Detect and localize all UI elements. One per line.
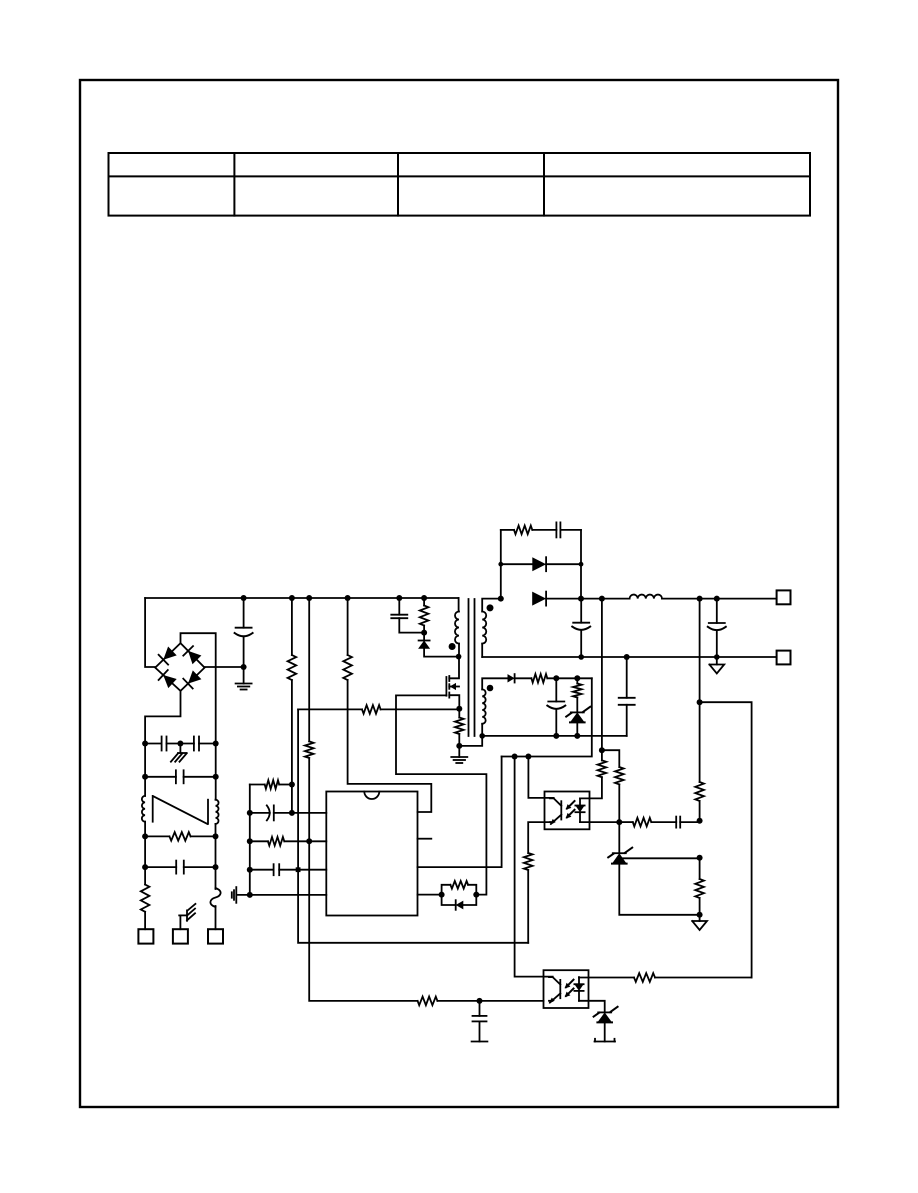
junction X1 left bbox=[142, 774, 148, 780]
secondary bottom rail bbox=[482, 656, 776, 658]
X-capacitor CX1 bbox=[175, 770, 177, 783]
IC pin3 lead bbox=[250, 869, 274, 871]
junction sense ground bbox=[456, 743, 462, 749]
junction rail x348 bbox=[345, 595, 351, 601]
opto2 capacitor C10 bbox=[473, 1015, 487, 1017]
wire gate drive bbox=[396, 695, 486, 894]
comp wire bbox=[651, 821, 676, 823]
common-mode choke L1 diagonal bbox=[154, 797, 207, 824]
wire x309 upper bbox=[308, 598, 310, 741]
parallel diode D6 lead b bbox=[546, 563, 581, 565]
opto1 anode resistor R15 lead bbox=[601, 750, 603, 760]
aux zener ZD1 anode lead bbox=[576, 722, 578, 736]
junction bulk cap top bbox=[241, 595, 247, 601]
common-mode choke L1 left winding bbox=[142, 796, 145, 822]
snubber capacitor C2 bbox=[391, 614, 407, 616]
junction rail x292 bbox=[289, 595, 295, 601]
secondary rail a bbox=[546, 598, 630, 600]
page border frame bbox=[80, 80, 838, 1107]
primary winding bottom lead bbox=[458, 644, 460, 657]
snubber resistor R7 lower lead bbox=[423, 626, 425, 633]
output terminal + bbox=[777, 590, 791, 604]
Y-cap right lead bbox=[199, 743, 216, 745]
opto1 emitter resistor R17 bbox=[524, 853, 533, 870]
table row divider bbox=[109, 175, 811, 177]
junction pin1 rail bbox=[247, 810, 253, 816]
parallel diode D6 lead bbox=[501, 563, 533, 565]
parallel diode D6 bbox=[532, 557, 546, 571]
opto2 resistor lead bbox=[437, 1000, 543, 1002]
IC left ground rail bbox=[249, 785, 251, 895]
wire R6 to IC right pin1 bbox=[348, 680, 432, 812]
capacitor C3 (pin1) bbox=[267, 805, 270, 820]
wire 5V feedback drop bbox=[601, 599, 603, 751]
junction Y2 top bbox=[624, 654, 630, 660]
gate diode D3 right bbox=[463, 895, 476, 905]
aux capacitor C5 lower lead bbox=[555, 709, 557, 736]
opto2 capacitor C10 lead bbox=[479, 1001, 481, 1016]
resistor R10 (pin2) bbox=[268, 837, 284, 846]
aux capacitor C5 bbox=[548, 701, 564, 703]
junction Y-line right bbox=[213, 741, 219, 747]
Y-capacitor CY3 lower lead bbox=[626, 705, 628, 736]
common-mode choke L1 right winding bbox=[216, 800, 219, 824]
capacitor C4 (pin3) bbox=[273, 864, 275, 875]
wire bridge AC1 lead bbox=[181, 633, 216, 743]
common-mode choke L1 right core bar bbox=[207, 800, 209, 824]
snubber capacitor C2 lead bbox=[398, 598, 400, 615]
sense line to source bbox=[381, 708, 460, 710]
mosfet Q1 drain lead bbox=[449, 657, 459, 679]
chassis ground IC bbox=[235, 887, 237, 903]
junction rail snubber res bbox=[421, 595, 427, 601]
input terminal 2 bbox=[173, 929, 188, 943]
resistor R5 right lead bbox=[279, 784, 292, 786]
junction output tap bbox=[697, 596, 703, 602]
gate resistor R11 right bbox=[468, 885, 476, 895]
damping resistor R1 left lead bbox=[145, 835, 169, 837]
junction bulk cap bottom bbox=[241, 664, 247, 670]
primary phase dot bbox=[449, 643, 456, 650]
optocoupler U2 bbox=[545, 792, 590, 830]
comp resistor R19 lead bbox=[619, 821, 633, 823]
transformer core line 2 bbox=[474, 599, 476, 736]
zener ZD2 end bar bbox=[595, 1041, 616, 1043]
chassis ground Y-caps stub bbox=[179, 744, 181, 754]
optocoupler U4 bbox=[544, 970, 589, 1008]
snubber diode D2 bbox=[419, 640, 430, 642]
output diode D5 bbox=[532, 592, 546, 606]
opto2 capacitor C10 lower lead bbox=[479, 1021, 481, 1041]
junction R3/R5 bbox=[289, 782, 295, 788]
snubber riser left bbox=[500, 530, 502, 599]
output capacitor C7 lower lead bbox=[580, 630, 582, 657]
bias resistor R16 lead bbox=[602, 750, 619, 767]
secondary winding top lead bbox=[482, 599, 501, 612]
wire 5V tap to opto2 bbox=[700, 702, 752, 977]
junction pin4 rail bbox=[247, 892, 253, 898]
bridge diode bottom-right bbox=[188, 670, 201, 683]
bias resistor R16 bbox=[615, 767, 624, 784]
junction D6 left bbox=[498, 562, 503, 567]
wire sense feedback riser bbox=[298, 709, 528, 942]
junction Y-line mid bbox=[177, 741, 183, 747]
X-capacitor CX1 left lead bbox=[145, 776, 176, 778]
bridge rectifier BD1 bbox=[155, 643, 204, 691]
sec snubber cap lead bbox=[560, 529, 581, 531]
X-capacitor CX2 right lead bbox=[184, 866, 216, 868]
junction aux cap bottom bbox=[553, 733, 559, 739]
junction Vcc/opto riser 1 bbox=[512, 754, 518, 760]
secondary rail b bbox=[662, 598, 777, 600]
junction C7 bottom bbox=[578, 654, 584, 660]
opto1 emitter wire bbox=[528, 822, 550, 853]
junction D6 right bbox=[579, 562, 584, 567]
junction source sense bbox=[456, 706, 462, 712]
opto2 resistor R22 bbox=[418, 997, 438, 1006]
junction aux zener top bbox=[574, 675, 580, 681]
Y-capacitor CY1 bbox=[161, 737, 163, 751]
divider resistor R20 lead bbox=[699, 858, 701, 879]
sense resistor R9 lead bbox=[458, 709, 460, 718]
wire x309 lower bbox=[309, 758, 417, 1001]
divider resistor R18 lead bbox=[699, 599, 701, 782]
opto2 anode resistor lead bbox=[655, 977, 752, 979]
IC pin1 line bbox=[250, 812, 270, 814]
IC right pin2 stub bbox=[418, 838, 432, 840]
junction aux cap top bbox=[553, 675, 559, 681]
divider resistor R18 lower lead bbox=[699, 801, 701, 821]
revision table bbox=[109, 153, 811, 216]
comp capacitor C9 bbox=[675, 817, 677, 828]
secondary ground arrow stub bbox=[699, 915, 701, 921]
IC pin4 line bbox=[238, 894, 327, 896]
junction rail snubber cap bbox=[396, 595, 402, 601]
junction R||D left bbox=[439, 892, 445, 898]
U3 anode wire bbox=[619, 864, 699, 915]
junction Vcc/opto riser 2 bbox=[525, 754, 531, 760]
wire DC bulk rail bbox=[145, 597, 459, 599]
aux zener resistor R13 lead bbox=[576, 678, 578, 683]
aux resistor R12 lead bbox=[547, 677, 592, 679]
transformer secondary winding bbox=[482, 612, 486, 644]
bridge diode bottom-left bbox=[163, 675, 177, 688]
junction X2 right bbox=[213, 864, 219, 870]
junction aux return bbox=[479, 733, 485, 739]
junction divider bottom bbox=[697, 912, 703, 918]
sec snubber capacitor C6 bbox=[555, 522, 557, 537]
junction drain node bbox=[456, 654, 462, 660]
junction divider mid bbox=[697, 818, 703, 824]
aux resistor R12 bbox=[531, 674, 547, 683]
snubber resistor R7 bbox=[420, 606, 429, 626]
gate resistor R11 block top bbox=[442, 885, 451, 895]
sense resistor R9 bbox=[455, 718, 464, 735]
junction aux zener bottom bbox=[574, 733, 580, 739]
wire left rail below choke bbox=[144, 822, 146, 837]
IC Vcc pin wire bbox=[418, 757, 502, 868]
aux zener resistor R13 bbox=[573, 684, 582, 698]
fuse F1 lower lead bbox=[215, 906, 217, 929]
wire source to aux return bbox=[459, 736, 482, 746]
chassis ground terminal2 stub bbox=[179, 915, 181, 929]
IC pin1 line b bbox=[274, 812, 327, 814]
output capacitor C8 lower lead bbox=[716, 631, 718, 657]
bulk capacitor C1 lead bbox=[243, 598, 245, 628]
current sense line lead bbox=[298, 708, 362, 710]
X-capacitor CX2 left lead bbox=[145, 866, 176, 868]
IC U1 notch bbox=[364, 792, 379, 800]
fuse F1 lead bbox=[215, 867, 217, 889]
shunt regulator U3 (TL431) bbox=[613, 852, 626, 854]
wire rail to bridge + output bbox=[145, 598, 155, 667]
table column divider 3 bbox=[543, 153, 545, 216]
opto2 anode wire bbox=[579, 977, 634, 979]
mosfet Q1 source lead bbox=[449, 695, 459, 709]
wire left rail above choke bbox=[144, 744, 146, 796]
wire right rail above choke bbox=[215, 744, 217, 800]
common-mode choke L1 left core bar bbox=[152, 796, 154, 822]
output capacitor C7 bbox=[573, 622, 589, 624]
aux zener ZD1 bbox=[571, 711, 584, 713]
opto1 anode wire bbox=[580, 777, 602, 798]
input resistor R2 lower lead bbox=[144, 912, 146, 929]
junction snubber left bottom bbox=[498, 596, 504, 602]
junction opto2 cap bbox=[477, 998, 483, 1004]
X-capacitor CX1 right lead bbox=[184, 776, 216, 778]
zener ZD2 anode lead bbox=[604, 1022, 606, 1042]
opto1 anode resistor R15 bbox=[598, 760, 607, 777]
output capacitor C7 lead bbox=[580, 599, 582, 623]
resistor R6 bbox=[343, 655, 352, 680]
gate diode D3 bbox=[456, 901, 464, 910]
junction R||D right bbox=[473, 892, 479, 898]
wire bridge negative lead bbox=[205, 666, 244, 668]
junction divider ref bbox=[697, 855, 703, 861]
U3 ref wire bbox=[623, 857, 700, 859]
output ground arrow bbox=[716, 657, 718, 665]
fuse F1 bbox=[210, 888, 220, 907]
comp capacitor C9 lead bbox=[680, 821, 699, 823]
snubber capacitor C2 lower lead bbox=[399, 618, 424, 632]
snubber diode D2 lead bbox=[423, 633, 425, 641]
mosfet Q1 channel bars bbox=[448, 676, 450, 681]
input terminal 3 bbox=[208, 929, 223, 943]
sec snubber resistor R14 bbox=[514, 526, 532, 535]
IC pin2 line b bbox=[284, 840, 326, 842]
divider resistor R20 bbox=[695, 879, 704, 898]
IC pin2 lead bbox=[250, 840, 268, 842]
wire right rail to X2 bbox=[215, 836, 217, 867]
opto2 collector riser bbox=[515, 757, 553, 977]
bridge diode top-left bbox=[163, 647, 176, 660]
junction Y-line left bbox=[142, 741, 148, 747]
Y-capacitor line bbox=[145, 743, 162, 745]
transformer primary winding bbox=[455, 612, 459, 644]
junction opto1 cathode bbox=[616, 819, 622, 825]
junction X2 left bbox=[142, 864, 148, 870]
junction C8 bottom bbox=[714, 654, 720, 660]
output terminal - bbox=[777, 651, 791, 665]
transformer core line 1 bbox=[468, 599, 470, 736]
table column divider 2 bbox=[397, 153, 399, 216]
snubber resistor R7 lead bbox=[423, 598, 425, 606]
aux capacitor C5 lead bbox=[555, 678, 557, 701]
junction pin3 rail bbox=[247, 867, 253, 873]
wire bridge AC2 lead bbox=[145, 691, 180, 744]
earth ground source stub bbox=[458, 746, 460, 757]
resistor R5 lead bbox=[250, 784, 265, 786]
wire left rail to X2 bbox=[144, 836, 146, 867]
comp resistor R19 bbox=[633, 818, 652, 827]
wire right rail below choke bbox=[215, 824, 217, 837]
controller IC U1 body bbox=[326, 792, 417, 916]
input resistor R2 bbox=[141, 885, 150, 912]
damping resistor R1 bbox=[169, 832, 190, 841]
junction X1 right bbox=[213, 774, 219, 780]
divider resistor R18 bbox=[695, 782, 704, 801]
mosfet Q1 body diode arrow bbox=[449, 686, 459, 688]
opto1 cathode wire bbox=[580, 821, 619, 823]
opto2 cathode wire bbox=[579, 1001, 605, 1013]
output capacitor C8 lead bbox=[716, 599, 718, 623]
sec snubber resistor R14 lead bbox=[501, 529, 514, 531]
bulk capacitor C1 bbox=[236, 627, 252, 629]
output inductor L2 bbox=[630, 595, 662, 599]
snubber riser right bbox=[580, 530, 582, 599]
X-capacitor CX2 bbox=[175, 861, 177, 874]
divider resistor R20 lower lead bbox=[699, 898, 701, 915]
junction rail fb bbox=[599, 596, 605, 602]
IC pin3 line b bbox=[279, 869, 326, 871]
Y-capacitor CY2 bbox=[193, 737, 195, 751]
transformer auxiliary winding bbox=[482, 689, 485, 723]
input terminal 1 bbox=[138, 929, 153, 943]
junction rail x309 bbox=[306, 595, 312, 601]
mosfet Q1 gate bar bbox=[445, 677, 447, 696]
table column divider 1 bbox=[233, 153, 235, 216]
Y-capacitor CY3 lead bbox=[626, 657, 628, 698]
sense resistor R8 bbox=[362, 705, 381, 714]
secondary ground arrow bbox=[692, 921, 707, 930]
aux bottom rail bbox=[482, 735, 627, 737]
resistor R3 lower lead bbox=[291, 680, 293, 785]
bias resistor R16 lower lead bbox=[618, 784, 620, 822]
junction snubber right bottom bbox=[578, 596, 584, 602]
input resistor R2 lead bbox=[144, 867, 146, 884]
junction x292 pin1 bbox=[289, 810, 295, 816]
aux winding bottom lead bbox=[481, 724, 483, 736]
opto1 emitter resistor lower lead bbox=[527, 870, 529, 943]
junction pin2 rail bbox=[247, 838, 253, 844]
aux diode D4 lead bbox=[515, 677, 532, 679]
secondary phase dot bbox=[487, 604, 494, 611]
output capacitor C8 bbox=[709, 622, 725, 624]
secondary winding bottom lead bbox=[481, 644, 483, 657]
junction x309 pin2 bbox=[306, 838, 312, 844]
bridge diode top-right bbox=[188, 651, 201, 664]
earth ground bulk bbox=[236, 683, 252, 685]
sec snubber wire bbox=[532, 529, 556, 531]
junction C8 top bbox=[714, 596, 720, 602]
aux winding top lead bbox=[482, 678, 507, 689]
junction snubber RC bbox=[421, 630, 427, 636]
earth ground source bbox=[451, 756, 467, 758]
wire Vcc drop bbox=[502, 678, 592, 756]
aux zener resistor R13 lower lead bbox=[576, 698, 578, 713]
aux phase dot bbox=[487, 685, 494, 692]
zener ZD2 bbox=[598, 1011, 611, 1013]
shunt regulator U3 cathode lead bbox=[618, 822, 620, 853]
wire R||D to IC bbox=[418, 894, 442, 896]
junction 5V tap bbox=[697, 699, 703, 705]
gate diode D3 block bottom bbox=[442, 895, 456, 905]
wire x292 to pin line bbox=[291, 785, 293, 813]
primary winding top lead bbox=[458, 598, 460, 612]
gate resistor R11 bbox=[450, 881, 468, 889]
resistor R5 bbox=[265, 780, 280, 789]
damping resistor R1 right lead bbox=[191, 835, 216, 837]
wire between Y-caps bbox=[167, 743, 194, 745]
junction fb node bbox=[599, 747, 605, 753]
opto2 anode resistor R23 bbox=[634, 973, 655, 982]
bulk capacitor C1 lower lead bbox=[243, 637, 245, 684]
resistor R3 bbox=[288, 655, 297, 680]
junction sense/pin3 bbox=[296, 867, 301, 872]
chassis ground terminal2 bbox=[179, 914, 187, 916]
resistor R3 upper lead bbox=[291, 598, 293, 655]
opto2 capacitor end bar bbox=[472, 1041, 488, 1043]
opto1 collector wire bbox=[528, 757, 553, 798]
junction R1 right bbox=[213, 833, 219, 839]
aux diode D4 bbox=[508, 674, 515, 682]
chassis ground Y-caps bbox=[178, 752, 187, 754]
junction R1 left bbox=[142, 833, 148, 839]
resistor R4 bbox=[305, 741, 314, 758]
snubber diode D2 anode lead bbox=[424, 649, 459, 657]
Y-capacitor CY3 bbox=[619, 697, 635, 699]
sense resistor R9 lower lead bbox=[458, 734, 460, 746]
resistor R6 upper lead bbox=[347, 598, 349, 655]
